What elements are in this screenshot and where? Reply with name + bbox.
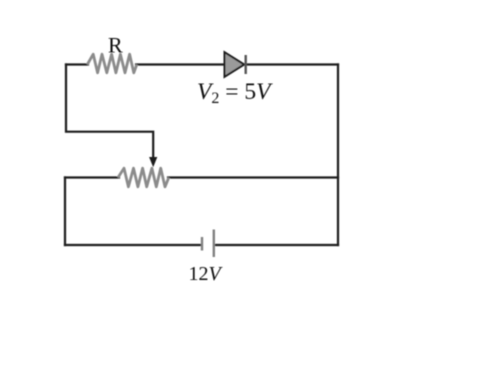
svg-text:R: R <box>108 33 123 58</box>
svg-text:V2 = 5V: V2 = 5V <box>197 79 273 107</box>
svg-text:12V: 12V <box>189 263 224 285</box>
